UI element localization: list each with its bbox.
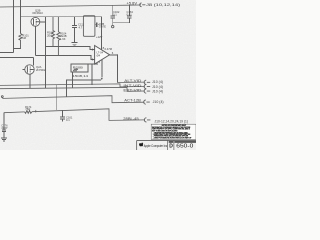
svg-text:GATE: GATE — [99, 25, 106, 29]
svg-text:4.7: 4.7 — [79, 25, 83, 29]
svg-text:IRF9910: IRF9910 — [33, 11, 44, 15]
svg-text:2N7002: 2N7002 — [36, 68, 46, 72]
svg-text:470P: 470P — [1, 126, 7, 130]
svg-text:Ø4: Ø4 — [97, 54, 101, 58]
svg-text:J10-12,14,20,24,19 (1): J10-12,14,20,24,19 (1) — [155, 119, 189, 123]
svg-text:28BL-45: 28BL-45 — [123, 117, 138, 121]
svg-text:6.47M: 6.47M — [105, 47, 113, 51]
svg-text:2E4: 2E4 — [47, 33, 52, 37]
svg-text:1508,14: 1508,14 — [73, 74, 89, 78]
svg-text:D: D — [169, 143, 173, 149]
svg-text:J10 (4): J10 (4) — [152, 85, 163, 89]
svg-text:0.1: 0.1 — [66, 118, 70, 122]
svg-text:J8 (10,12,14): J8 (10,12,14) — [146, 3, 180, 7]
svg-text:J10 (4): J10 (4) — [153, 100, 164, 104]
svg-text:75Ω: 75Ω — [25, 107, 30, 111]
svg-text:1.6K: 1.6K — [60, 37, 66, 41]
svg-text:650-0: 650-0 — [176, 144, 193, 150]
svg-text:0.1: 0.1 — [113, 13, 117, 17]
svg-text:Apple Computer Inc: Apple Computer Inc — [144, 143, 167, 148]
svg-text:0.01: 0.01 — [127, 13, 133, 17]
svg-text:J10 (4): J10 (4) — [152, 90, 163, 94]
svg-text:INT-VID: INT-VID — [123, 84, 142, 88]
svg-text:ALT-VID: ALT-VID — [124, 79, 142, 83]
svg-text:J10 (4): J10 (4) — [152, 80, 163, 84]
svg-text:R20B: R20B — [73, 66, 83, 70]
svg-text:+12V: +12V — [96, 35, 103, 39]
svg-text:+5.8V: +5.8V — [127, 2, 138, 6]
svg-text:EXT-VID: EXT-VID — [123, 88, 142, 92]
svg-text:ACT-12B: ACT-12B — [124, 98, 141, 102]
